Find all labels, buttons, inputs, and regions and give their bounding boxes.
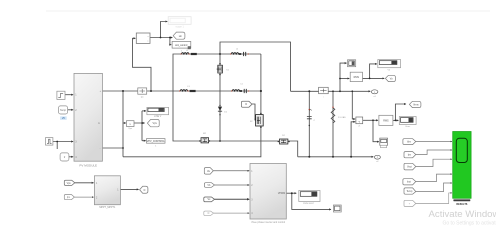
svg-text:Ir: Ir xyxy=(64,156,66,159)
svg-text:Vout: Vout xyxy=(407,166,412,169)
svg-text:VPV_CONTROL: VPV_CONTROL xyxy=(147,140,165,143)
svg-text:Temp: Temp xyxy=(406,190,413,193)
svg-text:RESULTS: RESULTS xyxy=(456,203,467,206)
svg-text:Vpv: Vpv xyxy=(153,122,158,125)
svg-text:Temp: Temp xyxy=(60,109,67,112)
svg-text:three phase inverter and contr: three phase inverter and control xyxy=(251,221,285,224)
svg-text:Iout: Iout xyxy=(407,181,411,184)
svg-text:RMS: RMS xyxy=(354,76,360,79)
svg-text:wt1_control: wt1_control xyxy=(175,44,188,47)
svg-text:Vrms: Vrms xyxy=(413,103,419,106)
svg-text:D: D xyxy=(245,103,247,106)
svg-text:m: m xyxy=(98,122,100,125)
svg-text:LINE V: LINE V xyxy=(154,116,162,118)
svg-text:VPWM: VPWM xyxy=(278,193,285,195)
svg-text:D: D xyxy=(208,212,210,215)
svg-text:MPPT_MPPT1: MPPT_MPPT1 xyxy=(99,206,116,209)
svg-text:RMS: RMS xyxy=(383,119,389,122)
svg-text:PV MODULE: PV MODULE xyxy=(79,164,97,168)
svg-text:D: D xyxy=(144,189,146,192)
svg-text:PWM IGBT: PWM IGBT xyxy=(303,203,315,205)
svg-text:R LOAD: R LOAD xyxy=(338,116,346,119)
svg-text:scope 1: scope 1 xyxy=(176,25,185,28)
svg-text:Go to Settings to activate Win: Go to Settings to activate Win xyxy=(443,221,496,227)
svg-text:Activate Windows: Activate Windows xyxy=(429,209,496,220)
